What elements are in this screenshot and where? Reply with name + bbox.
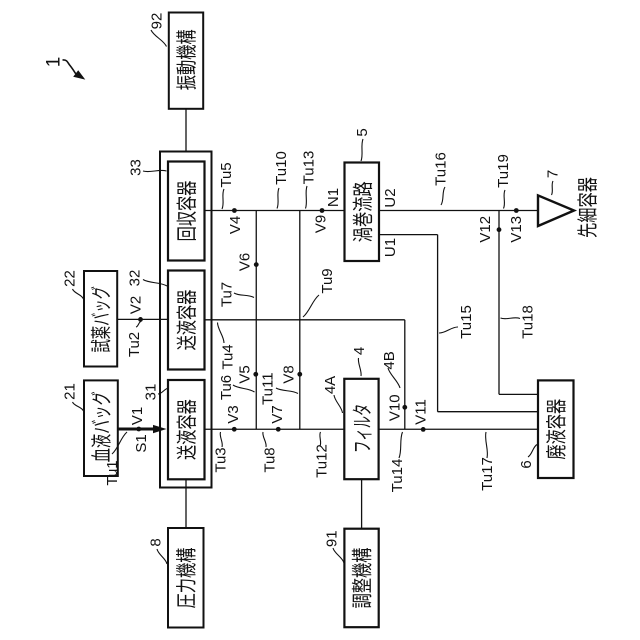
valve V3	[232, 427, 237, 432]
svg-text:Tu12: Tu12	[313, 444, 330, 478]
svg-text:Tu5: Tu5	[218, 162, 235, 187]
svg-text:V9: V9	[312, 215, 329, 233]
valve V4	[232, 208, 237, 213]
wire: unit box to pressure mechanism	[185, 479, 187, 528]
box 調整機構 91	[344, 529, 378, 628]
box 圧力機構 8	[168, 528, 204, 628]
wire: vibration to recovery container	[185, 109, 187, 162]
wire Tu11 vertical with V8	[299, 211, 301, 430]
wire line A Tu5/Tu10/Tu13: recovery container to spiral channel	[205, 210, 345, 212]
svg-text:U1: U1	[382, 238, 399, 257]
svg-text:33: 33	[127, 159, 144, 176]
svg-text:5: 5	[354, 128, 371, 136]
svg-text:4: 4	[351, 347, 368, 355]
box 回収容器 33	[168, 162, 205, 261]
svg-text:V13: V13	[508, 216, 525, 243]
box 振動機構 92	[169, 13, 203, 109]
svg-text:92: 92	[148, 13, 165, 30]
svg-text:V6: V6	[236, 253, 253, 271]
svg-text:V2: V2	[127, 296, 144, 314]
svg-text:Tu6: Tu6	[218, 375, 235, 400]
svg-text:Tu16: Tu16	[432, 152, 449, 186]
valve V8	[297, 372, 302, 377]
svg-text:Tu3: Tu3	[212, 447, 229, 472]
box 血液バッグ 21	[84, 380, 118, 476]
box 送液容器 32	[168, 271, 205, 370]
box 送液容器 31	[168, 380, 205, 479]
svg-text:4B: 4B	[381, 351, 398, 369]
svg-text:1: 1	[43, 57, 64, 68]
box 廃液容器 6	[538, 380, 574, 478]
wire Tu4/Tu9: container 32 to filter side line	[205, 319, 405, 321]
wire Tu18 vertical with V12 to waste container	[498, 211, 500, 395]
valve V9	[320, 208, 325, 213]
box 試薬バッグ 22	[84, 271, 117, 367]
valve V1	[136, 427, 141, 432]
svg-text:7: 7	[544, 170, 561, 178]
svg-text:V11: V11	[412, 399, 429, 425]
wire U2/Tu16/Tu19: spiral channel to tapered container	[380, 210, 538, 212]
wire main line Tu3/Tu8/Tu12: container 31 to filter	[205, 428, 345, 430]
svg-text:U2: U2	[382, 188, 399, 207]
svg-text:6: 6	[518, 460, 535, 468]
valve V5	[253, 372, 258, 377]
svg-text:Tu19: Tu19	[495, 154, 512, 188]
svg-text:91: 91	[323, 530, 340, 547]
svg-text:4A: 4A	[322, 376, 339, 394]
svg-text:Tu17: Tu17	[479, 457, 496, 491]
outer unit box 3	[160, 152, 212, 488]
box フィルタ 4	[344, 379, 378, 479]
svg-text:8: 8	[147, 538, 164, 546]
valve V2	[138, 317, 143, 322]
wire: filter to adjustment mechanism	[361, 479, 363, 529]
svg-text:Tu7: Tu7	[218, 282, 235, 307]
svg-text:21: 21	[61, 383, 78, 400]
svg-text:Tu8: Tu8	[261, 447, 278, 472]
valve V12	[497, 227, 502, 232]
svg-text:Tu4: Tu4	[219, 344, 236, 369]
svg-text:Tu10: Tu10	[273, 151, 290, 185]
svg-text:Tu14: Tu14	[389, 459, 406, 493]
svg-text:V5: V5	[236, 365, 253, 383]
triangle 先細容器 7	[538, 195, 574, 226]
valve V13	[514, 208, 519, 213]
valve V7	[276, 427, 281, 432]
svg-text:V1: V1	[129, 407, 146, 425]
arrowhead S1	[153, 425, 167, 433]
svg-text:Tu13: Tu13	[300, 151, 317, 185]
wire Tu7/Tu6 vertical with V6 V5	[255, 211, 257, 430]
box 渦巻流路 5	[345, 163, 380, 262]
svg-text:N1: N1	[325, 188, 342, 207]
svg-text:Tu18: Tu18	[519, 305, 536, 339]
svg-text:V10: V10	[386, 394, 403, 421]
wire U1/Tu15: spiral channel to waste container	[380, 234, 438, 236]
svg-text:V7: V7	[269, 405, 286, 423]
svg-text:Tu2: Tu2	[126, 332, 143, 357]
wire Tu14/Tu17: filter to waste container	[379, 428, 538, 430]
svg-text:Tu1: Tu1	[104, 460, 121, 485]
valve V10	[402, 405, 407, 410]
svg-text:32: 32	[126, 270, 143, 287]
valve V11	[421, 427, 426, 432]
svg-text:S1: S1	[133, 434, 150, 452]
svg-text:V8: V8	[280, 365, 297, 383]
svg-text:V4: V4	[227, 216, 244, 234]
svg-text:31: 31	[142, 384, 159, 401]
svg-text:Tu9: Tu9	[319, 268, 336, 293]
svg-text:V3: V3	[225, 405, 242, 423]
valve V6	[254, 262, 259, 267]
svg-text:22: 22	[61, 270, 78, 287]
svg-text:V12: V12	[477, 216, 494, 243]
wire Tu2 with valve V2: reagent bag to container 32	[117, 318, 168, 320]
svg-text:Tu15: Tu15	[458, 305, 475, 339]
tube S1 thick arrow: blood bag to container 31	[117, 428, 154, 431]
svg-text:Tu11: Tu11	[259, 372, 276, 405]
